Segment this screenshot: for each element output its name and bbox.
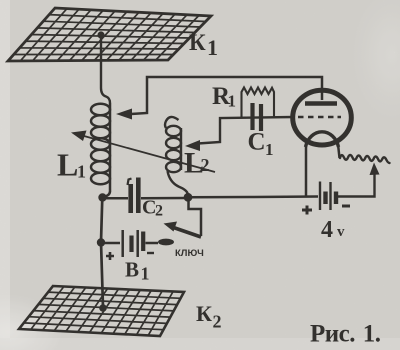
arrowhead into L1 (116, 109, 132, 120)
wire filament right lead (338, 144, 340, 158)
vacuum tube U1 (293, 90, 352, 145)
rheostat (340, 155, 390, 163)
label K2 (196, 301, 222, 332)
label B1 minus (147, 252, 154, 254)
label 4v (321, 217, 345, 243)
wire filament supply (node to battery +) (188, 195, 318, 198)
key lever (172, 227, 201, 237)
earth plate K2 (19, 286, 184, 336)
label 4v plus (302, 206, 312, 215)
label C1 (248, 129, 274, 160)
node junction L1 bottom (98, 193, 106, 201)
label L1 (57, 147, 86, 183)
arrowhead into L2 (185, 140, 200, 151)
capacitor C1 (253, 103, 262, 131)
battery 4v (320, 182, 336, 211)
label R1 (212, 83, 236, 111)
wire antenna lead (K1 to L1 top) (101, 35, 110, 103)
wire C2 link (102, 197, 128, 200)
label B1 (125, 258, 150, 284)
node on K2 plate (99, 304, 107, 312)
coil L1 (91, 103, 110, 198)
variometer arrow across L1 and L2 (84, 136, 215, 172)
coil L2 (165, 117, 188, 194)
battery B1 (101, 242, 120, 245)
label B1 plus (106, 252, 114, 260)
wire main left vertical (L1 bottom to K2) (101, 198, 103, 308)
label K1 (189, 30, 218, 60)
node on K1 plate (97, 31, 104, 38)
rheostat wiper arrow (338, 172, 375, 197)
capacitor C2 (128, 178, 139, 214)
wire C2 to node (141, 197, 186, 200)
node junction L2 bottom (184, 193, 193, 202)
label 4v minus (342, 205, 350, 208)
wire grid line (tube grid through R1C1 to L2 tap) (198, 117, 293, 144)
paper texture (0, 0, 1, 1)
label C2 (142, 197, 163, 220)
wire filament left lead (305, 144, 308, 196)
label L2 (184, 147, 210, 180)
tube filament dome (306, 132, 339, 147)
wire key branch (189, 200, 202, 236)
tube anode plate (305, 101, 337, 105)
antenna plate K1 (8, 8, 211, 61)
resistor R1 (242, 88, 275, 119)
key contact knob (158, 239, 174, 246)
wire anode tap (top wire to L1) (131, 77, 322, 114)
node junction B1 (97, 238, 105, 246)
tube grid dashes (298, 116, 341, 119)
